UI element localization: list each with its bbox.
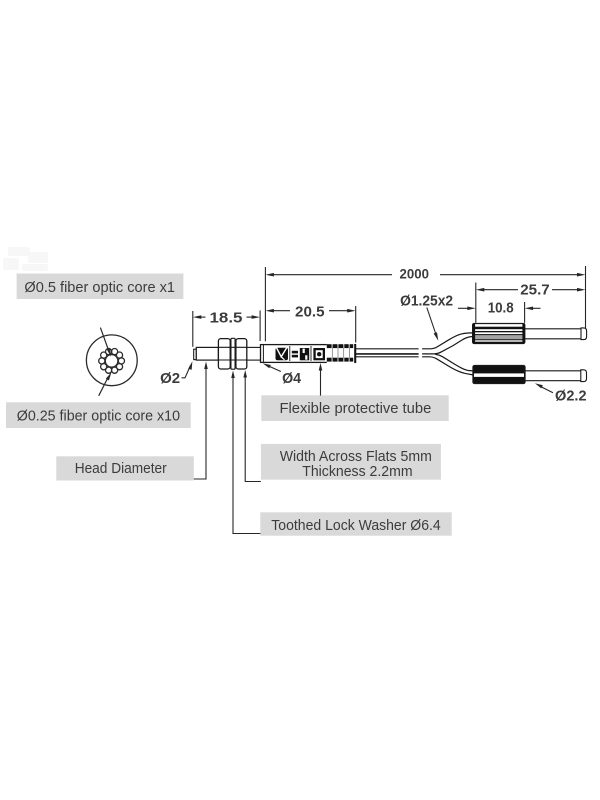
inner left compartment line: [262, 345, 264, 363]
label 4 with leader: [263, 363, 301, 387]
nut facet lines: [218, 347, 246, 360]
rib section: [327, 344, 356, 364]
leader: flexible protective tube: [319, 363, 323, 396]
logo glyph 3 (H block): [300, 348, 309, 360]
label box: 0.5 fiber optic core x1: [17, 274, 184, 300]
dimension 2000: [266, 266, 586, 329]
dimension 10.8 (outside arrows): [458, 300, 541, 323]
svg-text:Ø2.2: Ø2.2: [555, 388, 587, 404]
leader arrow to small cores (0.25): [99, 372, 112, 396]
leader: width across flats (nut): [243, 370, 261, 482]
upper ferrule tube: [525, 328, 587, 340]
main twin cable: [356, 349, 419, 357]
dimension 18.5: [193, 310, 260, 347]
hex nut 1: [218, 339, 230, 369]
svg-text:2000: 2000: [400, 266, 430, 282]
svg-text:25.7: 25.7: [520, 283, 550, 299]
hex nut 2: [236, 339, 247, 369]
dimension 20.5: [265, 267, 355, 343]
logo glyph 1 (mark): [276, 347, 289, 360]
upper tip cap: [581, 328, 587, 340]
lower ferrule tube: [525, 370, 587, 382]
svg-text:18.5: 18.5: [210, 310, 243, 326]
svg-text:Toothed Lock Washer Ø6.4: Toothed Lock Washer Ø6.4: [271, 518, 440, 534]
logo glyph 4 (O with dot): [313, 348, 325, 360]
leader: toothed lock washer: [231, 371, 260, 534]
svg-text:Ø0.25 fiber optic core x10: Ø0.25 fiber optic core x10: [17, 408, 180, 424]
sensor tip cap: [194, 349, 197, 359]
lower connector block (dark): [473, 366, 525, 384]
svg-text:Flexible protective tube: Flexible protective tube: [280, 401, 432, 417]
svg-text:Ø1.25x2: Ø1.25x2: [400, 294, 453, 310]
svg-text:Ø2: Ø2: [160, 371, 180, 387]
logo divider 2: [310, 346, 312, 361]
svg-text:10.8: 10.8: [488, 300, 514, 316]
leader arrow to center core (0.5): [100, 328, 111, 357]
label box: Width Across Flats / Thickness: [261, 444, 441, 480]
upper connector block (ribbed): [473, 324, 525, 344]
lower tip cap: [581, 370, 587, 382]
label 2.2 with leader: [535, 383, 587, 404]
logo glyph 2 (=): [292, 351, 298, 354]
label box: 0.25 fiber optic core x10: [6, 402, 191, 428]
ring of 10 small core circles 0.25: [99, 349, 125, 374]
svg-text:20.5: 20.5: [295, 304, 325, 320]
sensor barrel (head): [196, 347, 218, 360]
toothed lock washer: [231, 338, 235, 369]
rear barrel segment: [247, 347, 261, 360]
label box: Flexible protective tube: [261, 395, 448, 421]
Y split upper branch: [422, 333, 473, 354]
svg-text:Head Diameter: Head Diameter: [75, 461, 167, 477]
flexible tube block: [261, 344, 356, 364]
Y split lower branch: [422, 354, 473, 375]
label 2 with leader: [160, 361, 192, 387]
leader: head diameter: [194, 362, 208, 480]
svg-text:Ø0.5 fiber optic core x1: Ø0.5 fiber optic core x1: [24, 280, 175, 296]
dimension 25.7: [476, 283, 586, 323]
label 1.25x2 with leader: [400, 294, 453, 341]
fiber cross-section outer circle: [86, 335, 137, 386]
svg-text:Thickness 2.2mm: Thickness 2.2mm: [302, 464, 412, 480]
label box: Head Diameter: [56, 456, 194, 480]
svg-text:Ø4: Ø4: [282, 371, 301, 387]
center core circle 0.5: [105, 355, 118, 368]
label box: Toothed Lock Washer: [260, 512, 451, 535]
logo divider: [289, 346, 291, 361]
svg-text:Width Across Flats 5mm: Width Across Flats 5mm: [280, 449, 432, 465]
faint ghost watermark marks: [3, 247, 48, 271]
